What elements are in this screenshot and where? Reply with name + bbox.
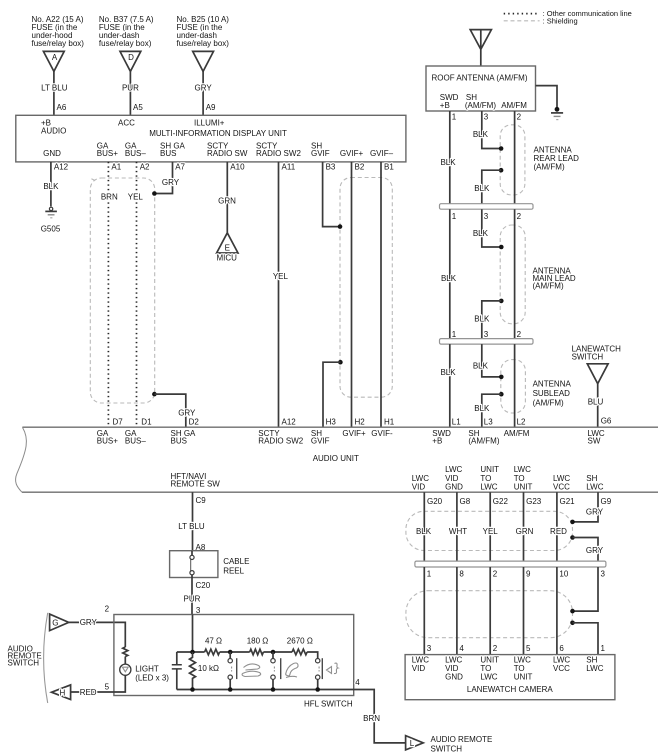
svg-text:G23: G23: [526, 497, 542, 506]
svg-text:AUDIO: AUDIO: [41, 126, 66, 135]
roof antenna box: [426, 66, 536, 111]
svg-text:AM/FM: AM/FM: [501, 101, 527, 110]
svg-text:(LED x 3): (LED x 3): [135, 674, 169, 683]
svg-text:LANEWATCH CAMERA: LANEWATCH CAMERA: [467, 685, 553, 694]
svg-text:LWC: LWC: [586, 664, 603, 673]
svg-text:(AM/FM): (AM/FM): [533, 399, 564, 408]
svg-text:A12: A12: [282, 418, 297, 427]
svg-text:GND: GND: [43, 149, 61, 158]
cable reel box: [170, 551, 218, 578]
svg-text:PUR: PUR: [122, 84, 139, 93]
resistor 10k ohm: [190, 652, 196, 690]
svg-text:PUR: PUR: [184, 595, 201, 604]
svg-text:GRN: GRN: [516, 527, 534, 536]
phone hangup icon: [286, 663, 299, 678]
svg-text:A: A: [52, 53, 58, 62]
svg-text:2: 2: [493, 570, 498, 579]
svg-text:REMOTE SW: REMOTE SW: [171, 480, 221, 489]
fuse A symbol: [43, 51, 64, 71]
shield around GA BUS pair: [90, 178, 154, 403]
sublead: shield junction bottom: [499, 392, 504, 397]
svg-text:8: 8: [459, 570, 464, 579]
svg-text:A5: A5: [133, 103, 143, 112]
camera wire 4: [456, 567, 458, 655]
shield junction: [570, 520, 575, 525]
sublead: wire SWD+B BLK: [449, 344, 451, 427]
junction dots bottom rail: [190, 687, 195, 692]
svg-text:A1: A1: [111, 162, 121, 171]
svg-text:BUS–: BUS–: [125, 437, 146, 446]
switch branch 3: [317, 679, 319, 689]
sublead: wire SH upper: [482, 344, 502, 377]
svg-text:LWC: LWC: [480, 482, 497, 491]
wire GRY into HFL pin 2: [69, 622, 126, 647]
svg-text:UNIT: UNIT: [514, 673, 533, 682]
lanewatch camera box: [405, 655, 615, 700]
wire BLU to G6: [597, 384, 599, 428]
camera wire SH lower: [573, 623, 599, 655]
svg-text:BLK: BLK: [473, 229, 489, 238]
svg-text:H: H: [60, 688, 66, 697]
rear lead: wire SH upper: [482, 111, 501, 149]
svg-text:GVIF: GVIF: [311, 437, 330, 446]
camera wire SH upper: [573, 567, 599, 611]
wire UNIT TO LWC YEL: [489, 492, 491, 561]
svg-text:(AM/FM): (AM/FM): [468, 437, 499, 446]
main lead: shield: [500, 225, 525, 324]
svg-text:H1: H1: [384, 418, 395, 427]
MICU triangle E: [217, 233, 238, 253]
svg-text:MICU: MICU: [216, 254, 237, 263]
voice icon: [327, 663, 339, 674]
shield around GVIF pair: [340, 178, 392, 398]
svg-text:180 Ω: 180 Ω: [247, 637, 269, 646]
wire GRY to pin A9: [202, 71, 204, 115]
audio remote switch brace: [44, 613, 48, 703]
wire LWC VID GND WHT: [456, 492, 458, 561]
svg-text:WHT: WHT: [449, 527, 467, 536]
svg-text:YEL: YEL: [128, 193, 144, 202]
light LED symbol: [120, 664, 131, 675]
svg-text:2670 Ω: 2670 Ω: [287, 637, 313, 646]
svg-text:A2: A2: [140, 162, 150, 171]
svg-text:LWC: LWC: [480, 673, 497, 682]
rear lead: wire SWD+B BLK: [449, 111, 451, 204]
main lead: shield junction bottom: [499, 299, 504, 304]
sublead: shield: [501, 360, 526, 413]
rear lead: shield junction top: [499, 146, 504, 151]
svg-text:3: 3: [484, 113, 489, 122]
svg-text:B3: B3: [326, 162, 336, 171]
svg-text:2: 2: [517, 212, 522, 221]
svg-text:fuse/relay box): fuse/relay box): [32, 39, 85, 48]
svg-text:1: 1: [452, 212, 457, 221]
svg-text:BLK: BLK: [416, 527, 432, 536]
shield junction bottom: [152, 392, 157, 397]
svg-text:SWITCH: SWITCH: [8, 659, 40, 668]
legend: shielding sample: [504, 20, 540, 22]
svg-text:G9: G9: [601, 497, 612, 506]
svg-text:RED: RED: [80, 688, 97, 697]
svg-text:G22: G22: [493, 497, 509, 506]
svg-text:H3: H3: [326, 418, 337, 427]
svg-text:GRY: GRY: [194, 84, 212, 93]
resistor 180 ohm: [250, 649, 264, 655]
svg-text:(AM/FM): (AM/FM): [465, 101, 496, 110]
svg-text:4: 4: [355, 678, 360, 687]
multi-information display unit box: [16, 115, 406, 162]
svg-text:B2: B2: [355, 162, 365, 171]
svg-text:3: 3: [484, 212, 489, 221]
svg-text:ANTENNA: ANTENNA: [533, 380, 572, 389]
svg-text:RADIO SW: RADIO SW: [207, 149, 248, 158]
svg-text:LT BLU: LT BLU: [41, 84, 68, 93]
wire GA BUS- (dotted) YEL: [136, 162, 138, 427]
switch branch 1: [229, 652, 231, 690]
svg-text:L1: L1: [452, 418, 461, 427]
svg-text:+B: +B: [440, 101, 450, 110]
svg-text:GRY: GRY: [162, 178, 180, 187]
svg-text:10 kΩ: 10 kΩ: [198, 664, 219, 673]
capacitor branch: [176, 652, 178, 690]
svg-text:BUS: BUS: [171, 437, 187, 446]
shield junction: [570, 609, 575, 614]
wire PUR inside box: [192, 615, 194, 653]
wire GA BUS+ (dotted) BRN: [107, 162, 109, 427]
svg-text:L: L: [410, 739, 415, 748]
svg-text:+B: +B: [432, 437, 442, 446]
wire SH LWC GRY lower: [573, 538, 599, 562]
svg-text:GRN: GRN: [218, 197, 236, 206]
svg-text:1: 1: [452, 113, 457, 122]
svg-text:G505: G505: [41, 224, 61, 233]
main lead: wire SH upper: [482, 209, 502, 247]
main lead: wire SWD+B BLK: [449, 209, 451, 338]
switch branch 2: [272, 652, 274, 690]
wire PUR to pin A5: [129, 71, 131, 115]
svg-text:C20: C20: [196, 581, 211, 590]
svg-text:A12: A12: [54, 162, 69, 171]
svg-text:BRN: BRN: [101, 193, 118, 202]
svg-text:G6: G6: [601, 416, 612, 425]
lwc shield lower: [406, 591, 573, 638]
svg-text:D: D: [128, 53, 134, 62]
svg-text:VID: VID: [412, 664, 426, 673]
svg-text:RED: RED: [550, 527, 567, 536]
svg-text:RADIO SW2: RADIO SW2: [256, 149, 301, 158]
svg-text:E: E: [225, 244, 230, 253]
svg-text:D2: D2: [189, 418, 200, 427]
svg-text:SWITCH: SWITCH: [572, 353, 604, 362]
svg-text:3: 3: [601, 570, 606, 579]
svg-text:G21: G21: [560, 497, 576, 506]
ground G505: [49, 207, 52, 210]
wire GVIF+: [351, 162, 353, 427]
svg-text:BLK: BLK: [441, 274, 457, 283]
svg-text:2: 2: [517, 113, 522, 122]
svg-text:A11: A11: [282, 162, 296, 171]
resistor 47 ohm: [205, 649, 220, 655]
svg-text:VCC: VCC: [553, 664, 570, 673]
connector L: [406, 736, 424, 750]
wire SH GA BUS from A7 to shield: [154, 162, 172, 194]
wire LWC VID BLK: [423, 492, 425, 561]
rear lead: shield: [500, 125, 525, 195]
svg-text:2: 2: [105, 605, 110, 614]
lwc connector bar: [415, 561, 606, 567]
svg-text:GND: GND: [445, 673, 463, 682]
svg-text:BLK: BLK: [474, 404, 490, 413]
camera wire 3: [423, 567, 425, 655]
wire SH GVIF B3 to shield: [323, 162, 340, 227]
svg-text:GVIF+: GVIF+: [342, 429, 366, 438]
shield junction bottom: [338, 360, 343, 365]
wire SCTY RADIO SW2 YEL: [278, 162, 280, 427]
svg-text:C9: C9: [196, 496, 207, 505]
svg-text:ACC: ACC: [118, 118, 135, 127]
wire GVIF-: [380, 162, 382, 427]
wire SH LWC GRY upper: [573, 492, 599, 522]
svg-text:VCC: VCC: [553, 482, 570, 491]
svg-text:ROOF ANTENNA (AM/FM): ROOF ANTENNA (AM/FM): [432, 74, 528, 83]
svg-text:SUBLEAD: SUBLEAD: [533, 389, 571, 398]
sublead: wire SH lower: [482, 394, 502, 427]
shield junction top: [338, 224, 343, 229]
audio unit band bottom edge: [22, 491, 658, 493]
connector H: [52, 685, 71, 700]
svg-text:BLK: BLK: [473, 130, 489, 139]
svg-text:MULTI-INFORMATION DISPLAY UNIT: MULTI-INFORMATION DISPLAY UNIT: [149, 129, 287, 138]
ground symbol: [555, 107, 560, 112]
svg-text:AUDIO UNIT: AUDIO UNIT: [313, 454, 359, 463]
svg-text:ILLUMI+: ILLUMI+: [194, 118, 225, 127]
wire SCTY RADIO SW GRN: [226, 162, 228, 233]
svg-text:(AM/FM): (AM/FM): [534, 163, 565, 172]
antenna symbol: [470, 30, 491, 66]
svg-text:YEL: YEL: [273, 272, 289, 281]
wire LWC TO UNIT GRN: [523, 492, 525, 561]
svg-text:LWC: LWC: [586, 482, 603, 491]
svg-text:YEL: YEL: [483, 527, 499, 536]
wire LT BLU to pin A6: [53, 71, 55, 115]
svg-text:LT BLU: LT BLU: [178, 522, 205, 531]
svg-text:REEL: REEL: [223, 567, 244, 576]
svg-text:AUDIO REMOTE: AUDIO REMOTE: [431, 735, 493, 744]
fuse symbol: [193, 51, 214, 71]
sublead: wire AM/FM: [514, 344, 516, 427]
svg-text:BRN: BRN: [363, 714, 380, 723]
svg-text:1: 1: [452, 330, 457, 339]
svg-text:5: 5: [526, 644, 531, 653]
sublead: shield junction top: [499, 375, 504, 380]
svg-text:BLK: BLK: [43, 182, 59, 191]
wire BLK from A12: [50, 162, 52, 207]
rear lead: shield junction bottom: [499, 168, 504, 173]
svg-text:fuse/relay box): fuse/relay box): [99, 39, 152, 48]
bottom rail to pin 4: [177, 690, 406, 743]
svg-text:9: 9: [526, 570, 531, 579]
svg-text:G8: G8: [460, 497, 471, 506]
main lead: shield junction top: [499, 245, 504, 250]
svg-text:G: G: [52, 618, 58, 627]
audio unit torn left edge: [16, 427, 27, 492]
connector bar 1: [440, 204, 534, 210]
svg-text:fuse/relay box): fuse/relay box): [177, 39, 230, 48]
junction dots top rail: [190, 650, 195, 655]
lwc shield upper: [406, 511, 573, 550]
svg-text:BLK: BLK: [474, 184, 490, 193]
wire LWC VCC RED: [556, 492, 558, 561]
svg-text:5: 5: [105, 683, 110, 692]
svg-text:BLK: BLK: [474, 315, 490, 324]
HFL switch box: [114, 615, 354, 696]
audio unit band top edge: [22, 426, 658, 428]
light resistor: [123, 647, 128, 657]
svg-text:A10: A10: [230, 162, 245, 171]
svg-text:L3: L3: [484, 418, 493, 427]
camera wire 2: [489, 567, 491, 655]
svg-text:BLK: BLK: [440, 368, 456, 377]
svg-text:HFL SWITCH: HFL SWITCH: [304, 700, 353, 709]
svg-text:D7: D7: [113, 418, 124, 427]
main lead: wire SH lower: [482, 301, 502, 339]
svg-text:A6: A6: [57, 103, 67, 112]
svg-text:47 Ω: 47 Ω: [205, 637, 222, 646]
svg-text:3: 3: [427, 644, 432, 653]
legend: other communication line sample: [504, 13, 540, 15]
camera wire 5: [523, 567, 525, 655]
svg-text:BLK: BLK: [440, 158, 456, 167]
svg-text:1: 1: [427, 570, 432, 579]
svg-text:VID: VID: [412, 482, 426, 491]
wire PUR to HFL pin 3: [191, 578, 193, 615]
svg-text:GVIF+: GVIF+: [340, 149, 364, 158]
shield junction top: [152, 191, 157, 196]
ground wire from roof antenna: [536, 86, 558, 108]
wire C9 LT BLU to cable reel: [192, 492, 194, 551]
svg-text:SW: SW: [588, 437, 601, 446]
svg-text:SWITCH: SWITCH: [431, 744, 463, 753]
svg-text:A7: A7: [175, 162, 185, 171]
svg-text:BLK: BLK: [473, 361, 489, 370]
svg-text:LIGHT: LIGHT: [135, 664, 159, 673]
svg-text:2: 2: [517, 330, 522, 339]
svg-text:GRY: GRY: [586, 546, 604, 555]
svg-text:10: 10: [559, 570, 568, 579]
svg-text:B1: B1: [384, 162, 394, 171]
svg-text:G20: G20: [427, 497, 443, 506]
svg-text:BUS: BUS: [160, 149, 176, 158]
lanewatch switch symbol: [587, 364, 608, 384]
svg-text:BUS+: BUS+: [97, 437, 118, 446]
svg-text:4: 4: [459, 644, 464, 653]
svg-text:A9: A9: [206, 103, 216, 112]
svg-text:GND: GND: [445, 482, 463, 491]
svg-text:GVIF: GVIF: [311, 149, 330, 158]
svg-text:6: 6: [559, 644, 564, 653]
camera wire 6: [556, 567, 558, 655]
rear lead: wire SH lower: [482, 170, 501, 204]
phone pickup icon: [242, 664, 261, 677]
resistor 2670 ohm: [292, 649, 307, 655]
svg-text:H2: H2: [355, 418, 366, 427]
svg-text:CABLE: CABLE: [223, 557, 249, 566]
wire shield to H3: [323, 362, 340, 427]
svg-text:GVIF-: GVIF-: [371, 429, 393, 438]
svg-text:L2: L2: [517, 418, 526, 427]
svg-text:GRY: GRY: [586, 508, 604, 517]
cable reel contacts: [191, 551, 193, 578]
svg-text:2: 2: [493, 644, 498, 653]
svg-text:BLU: BLU: [588, 398, 604, 407]
svg-text:BUS+: BUS+: [97, 149, 118, 158]
top rail: [177, 652, 318, 659]
svg-text:(AM/FM): (AM/FM): [533, 282, 564, 291]
svg-text:RADIO SW2: RADIO SW2: [258, 437, 303, 446]
fuse D symbol: [120, 51, 141, 71]
svg-text:GRY: GRY: [178, 409, 196, 418]
rear lead: wire AM/FM: [514, 111, 516, 204]
svg-text:1: 1: [601, 644, 606, 653]
svg-text:GRY: GRY: [80, 618, 98, 627]
main lead: wire AM/FM: [514, 209, 516, 338]
svg-text:: Shielding: : Shielding: [543, 17, 578, 26]
svg-text:3: 3: [484, 330, 489, 339]
svg-text:GVIF–: GVIF–: [370, 149, 394, 158]
svg-text:BUS–: BUS–: [125, 149, 146, 158]
svg-text:AM/FM: AM/FM: [504, 429, 530, 438]
svg-text:D1: D1: [141, 418, 152, 427]
svg-text:UNIT: UNIT: [514, 482, 533, 491]
connector G: [50, 614, 69, 631]
connector bar 2: [440, 339, 534, 345]
wire shield to D2: [154, 394, 185, 427]
